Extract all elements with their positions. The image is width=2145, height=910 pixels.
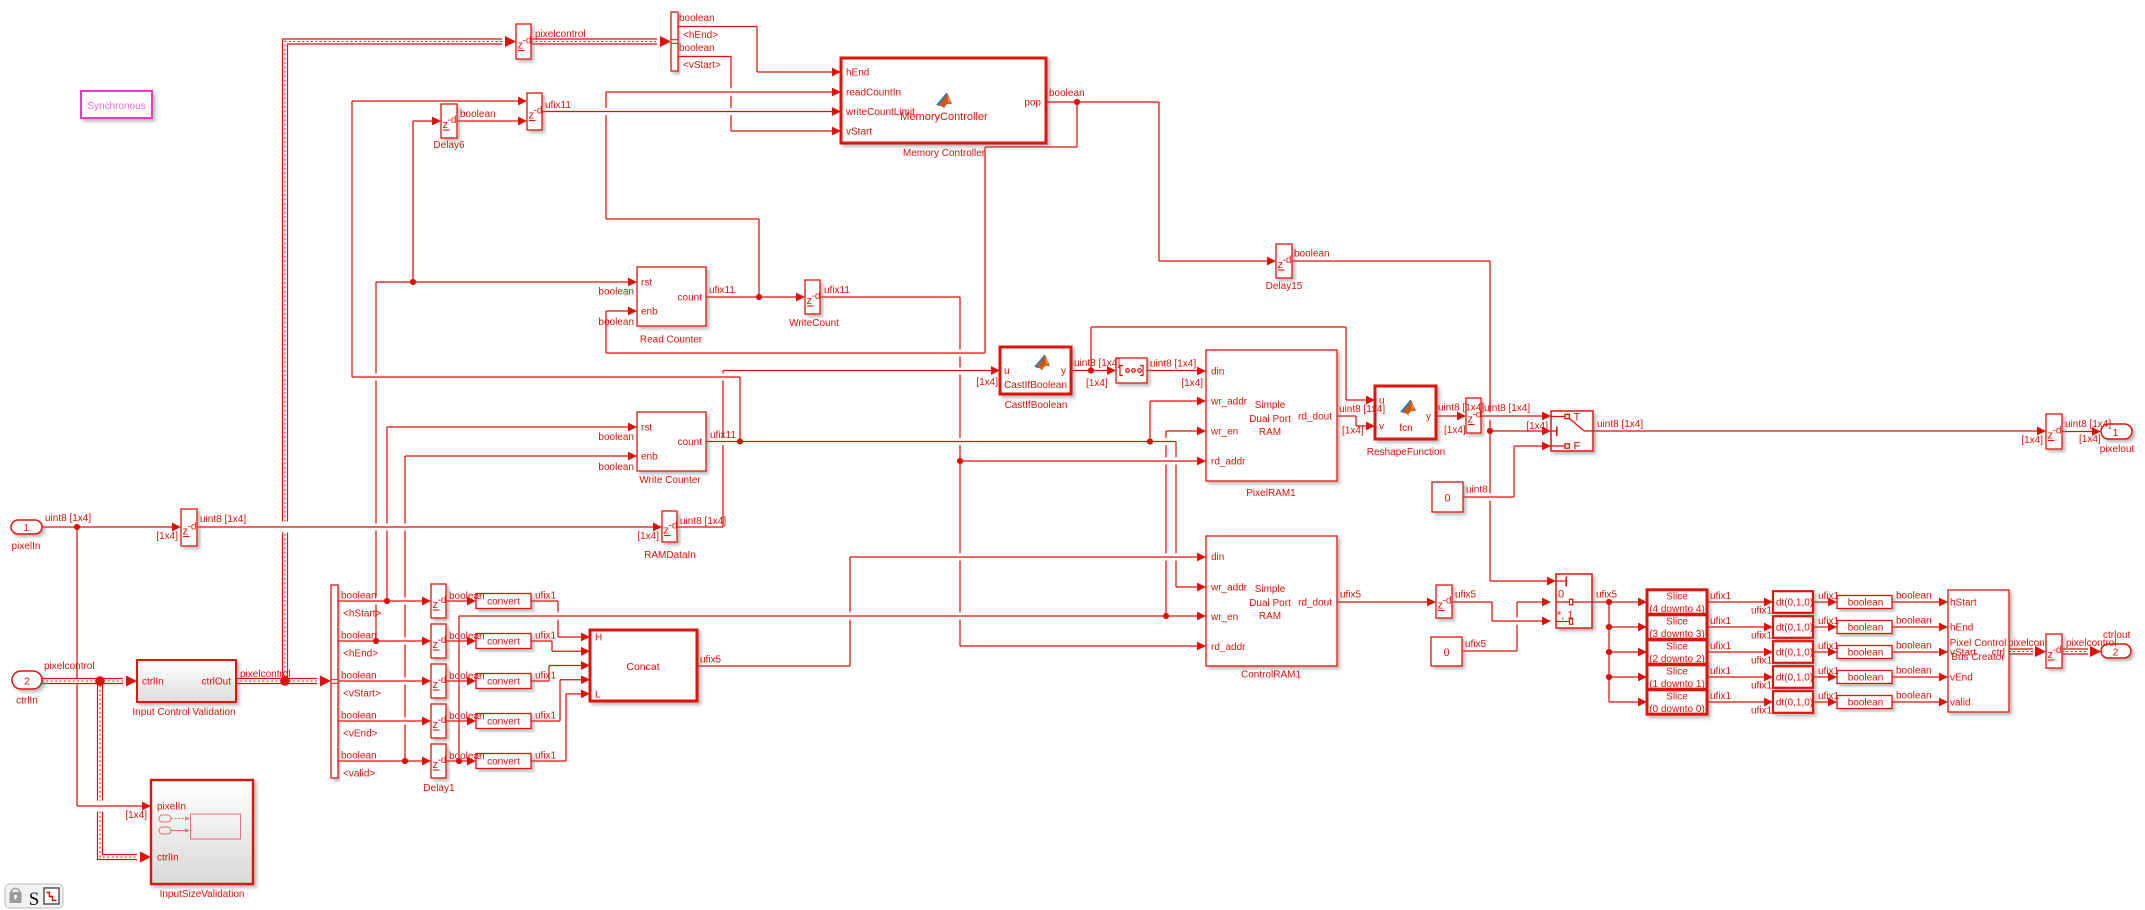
- boolean conversion block bit4: [1837, 596, 1892, 609]
- wire branch to Delay6: [413, 117, 441, 282]
- svg-text:0: 0: [1443, 647, 1449, 659]
- wire boolean to Bus Creator row4: [1892, 673, 1948, 682]
- svg-text:(3 downto 3): (3 downto 3): [1649, 629, 1705, 640]
- svg-text:boolean: boolean: [1896, 691, 1932, 702]
- svg-text:2: 2: [24, 676, 30, 688]
- wire boolean to Bus Creator row5: [1892, 698, 1948, 707]
- svg-text:[1x4]: [1x4]: [1444, 425, 1466, 436]
- wire branch to Slice bit2: [1609, 648, 1647, 657]
- junction dot at 1091,370.5: [1088, 367, 1094, 373]
- svg-text:PixelRAM1: PixelRAM1: [1246, 488, 1296, 499]
- wire branch to PixelRAM1 rd_addr: [960, 457, 1206, 466]
- wire dt to boolean cast row2: [1813, 623, 1837, 632]
- svg-text:Simple: Simple: [1255, 584, 1286, 595]
- svg-text:y: y: [1426, 412, 1431, 423]
- svg-text:ControlRAM1: ControlRAM1: [1241, 670, 1301, 681]
- svg-text:[1x4]: [1x4]: [156, 531, 178, 542]
- convert block (hStart path): [476, 594, 531, 609]
- wire branch to Slice bit3: [1609, 623, 1647, 632]
- svg-text:ctrlIn: ctrlIn: [16, 696, 38, 707]
- wire Read Counter count to WriteCount: [706, 293, 805, 302]
- wire pop feedback to Read Counter enb: [606, 102, 1077, 353]
- svg-text:boolean: boolean: [449, 671, 485, 682]
- svg-text:CastIfBoolean: CastIfBoolean: [1005, 400, 1068, 411]
- svg-text:H: H: [595, 633, 602, 644]
- svg-text:Slice: Slice: [1666, 642, 1688, 653]
- svg-text:Memory Controller: Memory Controller: [903, 148, 986, 159]
- wire delayed vStart to convert: [446, 677, 476, 686]
- svg-text:convert: convert: [487, 757, 520, 768]
- wire constant 0 to Switch F input: [1463, 442, 1551, 497]
- svg-text:*, 1: *, 1: [1557, 610, 1574, 622]
- wire hStart to Delay1: [338, 597, 431, 606]
- wire pixelIn to Delay: [42, 523, 181, 532]
- svg-text:y: y: [1061, 366, 1066, 377]
- svg-text:ufix11: ufix11: [545, 100, 571, 111]
- bus wire delayed pixelcontrol to Bus Selector1: [531, 36, 671, 47]
- svg-text:(0 downto 0): (0 downto 0): [1649, 704, 1705, 715]
- svg-text:-d: -d: [669, 521, 678, 532]
- svg-text:fcn: fcn: [1399, 423, 1412, 434]
- svg-text:ufix1: ufix1: [1818, 616, 1840, 627]
- svg-text:pixelcontrol: pixelcontrol: [240, 669, 291, 680]
- svg-text:1: 1: [24, 522, 30, 534]
- svg-text:pixelcontrol: pixelcontrol: [535, 29, 586, 40]
- svg-text:[1x4]: [1x4]: [2079, 434, 2101, 445]
- wire delayed control to index switch data: [1452, 602, 1551, 625]
- Simple Dual Port RAM PixelRAM1: [1206, 350, 1337, 481]
- MATLAB logo in CastIfBoolean: [1034, 355, 1050, 371]
- subsystem Input Control Validation: [137, 660, 236, 702]
- inport 1 pixelIn: [11, 520, 42, 534]
- svg-text:L: L: [595, 690, 601, 701]
- svg-text:dt(0,1,0): dt(0,1,0): [1776, 648, 1813, 659]
- bus junction dot at 285,681: [280, 676, 290, 686]
- svg-text:Input Control Validation: Input Control Validation: [132, 707, 235, 718]
- svg-text:Simple: Simple: [1255, 400, 1286, 411]
- wire convert4 to Concat: [531, 675, 590, 721]
- wire dt to boolean cast row1: [1813, 598, 1837, 607]
- svg-text:rst: rst: [641, 278, 652, 289]
- constant block 0 (uint8): [1432, 482, 1463, 512]
- svg-text:boolean: boolean: [679, 13, 715, 24]
- svg-text:Read Counter: Read Counter: [640, 335, 703, 346]
- Slice text underline row5: [1651, 712, 1703, 714]
- wire vStart signal to MemoryController: [678, 57, 841, 136]
- svg-text:Dual Port: Dual Port: [1249, 598, 1291, 609]
- wire Delay15 to index switch control: [1291, 261, 1556, 585]
- wire hEnd to Read Counter rst: [376, 278, 637, 641]
- delay block Delay1 (vEnd path): [431, 704, 446, 738]
- wire reshape to PixelRAM1 din: [1147, 367, 1206, 376]
- svg-text:-d: -d: [438, 595, 447, 606]
- svg-text:<hStart>: <hStart>: [343, 609, 382, 620]
- wire Slice bit0 to dt: [1707, 698, 1773, 707]
- svg-text:boolean: boolean: [1896, 616, 1932, 627]
- bus selector BusSelector2 (hStart hEnd vStart vEnd valid): [331, 585, 338, 778]
- wire to outport pixelout: [2062, 427, 2101, 436]
- svg-text:[1x4]: [1x4]: [1181, 378, 1203, 389]
- svg-text:-d: -d: [812, 291, 821, 302]
- bus junction dot at 100,681: [95, 676, 105, 686]
- svg-text:ufix1: ufix1: [1710, 616, 1732, 627]
- svg-text:Bus Creator: Bus Creator: [1951, 652, 2005, 663]
- svg-text:-d: -d: [438, 715, 447, 726]
- wire valid to Write Counter enb: [405, 452, 637, 761]
- svg-text:uint8 [1x4]: uint8 [1x4]: [1150, 359, 1196, 370]
- dt(0,1,0) block bit4: [1773, 591, 1813, 613]
- svg-text:ufix1: ufix1: [1710, 641, 1732, 652]
- junction dot at 1609,627: [1606, 624, 1612, 630]
- svg-text:boolean: boolean: [1294, 249, 1330, 260]
- junction dot at 1609,652: [1606, 649, 1612, 655]
- bus wire ctrlIn branch to InputSizeValidation: [100, 681, 151, 863]
- svg-text:ufix5: ufix5: [1455, 590, 1477, 601]
- delay block z^-d (pixelcontrol path): [516, 24, 531, 59]
- outport 1 pixelout: [2101, 424, 2132, 439]
- svg-text:dt(0,1,0): dt(0,1,0): [1776, 598, 1813, 609]
- svg-text:enb: enb: [641, 307, 658, 318]
- svg-text:<vEnd>: <vEnd>: [343, 729, 378, 740]
- svg-text:dt(0,1,0): dt(0,1,0): [1776, 698, 1813, 709]
- svg-text:wr_addr: wr_addr: [1210, 397, 1248, 408]
- junction dot at 1077,102: [1074, 99, 1080, 105]
- svg-text:ufix1: ufix1: [1751, 706, 1773, 717]
- svg-text:boolean: boolean: [460, 109, 496, 120]
- svg-text:ufix1: ufix1: [1751, 606, 1773, 617]
- svg-text:[1x4]: [1x4]: [637, 531, 659, 542]
- delay block WriteCount: [805, 280, 820, 314]
- junction dot at 1609,677: [1606, 674, 1612, 680]
- delay block z^-d (control read data): [1436, 585, 1452, 618]
- switch block T/F: [1551, 411, 1593, 451]
- junction dot at 405,761: [402, 758, 408, 764]
- Bus Creator Pixel Control: [1948, 590, 2009, 712]
- wire Slice bit4 to dt: [1707, 598, 1773, 607]
- MATLAB Function block Memory Controller: [841, 58, 1046, 143]
- svg-text:boolean: boolean: [598, 287, 634, 298]
- svg-text:InputSizeValidation: InputSizeValidation: [160, 889, 245, 900]
- svg-text:convert: convert: [487, 597, 520, 608]
- wire Slice bit3 to dt: [1707, 623, 1773, 632]
- delay block z^-d (reshaped pixel): [1466, 398, 1481, 433]
- MATLAB Function block CastIfBoolean: [1000, 347, 1071, 394]
- svg-text:ufix1: ufix1: [1710, 591, 1732, 602]
- svg-text:boolean: boolean: [679, 43, 715, 54]
- svg-text:ufix1: ufix1: [535, 631, 557, 642]
- wire vEnd to Delay1: [338, 717, 431, 726]
- svg-text:ufix5: ufix5: [1596, 590, 1618, 601]
- delay block WriteCountLimit (with enable input): [527, 93, 542, 130]
- svg-text:RAMDataIn: RAMDataIn: [644, 550, 696, 561]
- wire convert2 to Concat: [531, 641, 590, 656]
- svg-text:pixelIn: pixelIn: [12, 541, 41, 552]
- wire PixelRAM1 rd_dout to ReshapeFunction v: [1337, 416, 1375, 430]
- svg-text:ctrlIn: ctrlIn: [142, 677, 164, 688]
- svg-text:ufix5: ufix5: [700, 655, 722, 666]
- svg-text:1: 1: [2113, 427, 2119, 439]
- dt(0,1,0) block bit3: [1773, 616, 1813, 638]
- svg-text:-d: -d: [438, 675, 447, 686]
- Slice block (0 downto 0): [1647, 690, 1707, 714]
- wire Slice bit2 to dt: [1707, 648, 1773, 657]
- convert block (vStart path): [476, 674, 531, 689]
- delay block Delay1 (hEnd path): [431, 624, 446, 658]
- wire writeCountLimit to MemoryController: [542, 107, 841, 116]
- svg-text:readCountIn: readCountIn: [846, 88, 901, 99]
- svg-text:-d: -d: [438, 635, 447, 646]
- svg-text:S: S: [29, 889, 40, 910]
- svg-text:ctrlOut: ctrlOut: [202, 677, 232, 688]
- svg-text:ufix1: ufix1: [1818, 691, 1840, 702]
- svg-text:boolean: boolean: [1848, 698, 1884, 709]
- wire delayed valid to convert: [446, 757, 476, 766]
- svg-text:[1x4]: [1x4]: [976, 377, 998, 388]
- svg-text:pixelcontrol: pixelcontrol: [44, 661, 95, 672]
- svg-text:din: din: [1211, 552, 1224, 563]
- wire WriteCount to ControlRAM1 rd_addr: [820, 297, 1206, 650]
- Slice text underline row4: [1651, 687, 1703, 689]
- svg-text:boolean: boolean: [341, 671, 377, 682]
- wire boolean to Bus Creator row2: [1892, 623, 1948, 632]
- wire boolean to Bus Creator row3: [1892, 648, 1948, 657]
- convert block (hEnd path): [476, 634, 531, 649]
- svg-text:(2 downto 2): (2 downto 2): [1649, 654, 1705, 665]
- svg-text:wr_en: wr_en: [1210, 612, 1238, 623]
- wire delayed vEnd to convert: [446, 717, 476, 726]
- wire convert3 to Concat: [531, 661, 590, 681]
- svg-text:ufix11: ufix11: [710, 430, 736, 441]
- svg-text:uint8 [1x4]: uint8 [1x4]: [1339, 404, 1385, 415]
- svg-text:boolean: boolean: [1049, 88, 1085, 99]
- svg-text:ufix1: ufix1: [535, 591, 557, 602]
- junction dot at 387,601: [384, 598, 390, 604]
- wire dt to boolean cast row3: [1813, 648, 1837, 657]
- svg-text:[1x4]: [1x4]: [1086, 378, 1108, 389]
- dt(0,1,0) block bit2: [1773, 641, 1813, 663]
- viewer badge (lock, S, signal icon): [5, 884, 63, 910]
- svg-text:F: F: [1574, 441, 1581, 453]
- svg-text:ufix1: ufix1: [1751, 681, 1773, 692]
- svg-text:ufix1: ufix1: [1818, 666, 1840, 677]
- wire CastIfBoolean y to reshape: [1071, 366, 1116, 375]
- svg-text:u: u: [1004, 366, 1010, 377]
- junction dot at 1150,441.5: [1147, 438, 1153, 444]
- Concat block: [590, 630, 697, 701]
- boolean conversion block bit0: [1837, 696, 1892, 709]
- svg-text:MemoryController: MemoryController: [900, 111, 988, 123]
- reshape block [o o o]: [1116, 358, 1147, 383]
- svg-text:ufix11: ufix11: [824, 285, 850, 296]
- svg-text:din: din: [1211, 367, 1224, 378]
- delay block Delay1 (vStart path): [431, 664, 446, 698]
- junction dot at 459,761: [456, 758, 462, 764]
- svg-text:dt(0,1,0): dt(0,1,0): [1776, 673, 1813, 684]
- inport 2 ctrlIn: [12, 671, 42, 689]
- wire branch to Switch control input: [1490, 427, 1551, 436]
- svg-text:Pixel Control: Pixel Control: [1950, 638, 2007, 649]
- svg-text:boolean: boolean: [1896, 666, 1932, 677]
- svg-text:boolean: boolean: [449, 631, 485, 642]
- svg-text:Synchronous: Synchronous: [87, 101, 145, 112]
- Slice text underline row1: [1651, 612, 1703, 614]
- constant block 0 (ufix5): [1431, 637, 1462, 666]
- svg-text:boolean: boolean: [449, 591, 485, 602]
- wire pop to Delay15: [1046, 102, 1276, 265]
- svg-text:<hEnd>: <hEnd>: [683, 30, 718, 41]
- svg-text:ufix5: ufix5: [1340, 590, 1362, 601]
- svg-text:0: 0: [1444, 493, 1450, 505]
- svg-text:-d: -d: [448, 115, 457, 126]
- bus wire pixelcontrol to Bus Selector: [236, 676, 331, 687]
- svg-text:boolean: boolean: [598, 462, 634, 473]
- svg-text:convert: convert: [487, 637, 520, 648]
- svg-text:wr_addr: wr_addr: [1210, 583, 1248, 594]
- svg-text:pop: pop: [1024, 98, 1041, 109]
- svg-text:uint8 [1x4]: uint8 [1x4]: [680, 516, 726, 527]
- Slice block (2 downto 2): [1647, 640, 1707, 664]
- svg-text:Concat: Concat: [626, 661, 659, 673]
- svg-text:boolean: boolean: [1848, 623, 1884, 634]
- svg-text:-d: -d: [2053, 426, 2062, 437]
- outport 2 ctrlout: [2101, 644, 2131, 658]
- wire convert5 to Concat L: [531, 690, 590, 762]
- InputSizeValidation inner icon (two inports and subsystem): [159, 814, 241, 839]
- svg-text:uint8 [1x4]: uint8 [1x4]: [200, 514, 246, 525]
- svg-text:-d: -d: [438, 755, 447, 766]
- svg-text:0: 0: [1558, 589, 1564, 601]
- svg-text:convert: convert: [487, 677, 520, 688]
- svg-text:ufix1: ufix1: [1751, 631, 1773, 642]
- wire Concat to ControlRAM1 din: [697, 553, 1206, 666]
- dt(0,1,0) block bit1: [1773, 666, 1813, 688]
- svg-text:count: count: [678, 293, 703, 304]
- svg-text:count: count: [678, 437, 703, 448]
- svg-text:ufix1: ufix1: [1818, 591, 1840, 602]
- Slice text underline row3: [1651, 662, 1703, 664]
- convert block (valid path): [476, 754, 531, 769]
- svg-text:-d: -d: [2053, 645, 2062, 656]
- svg-text:<hEnd>: <hEnd>: [343, 649, 378, 660]
- junction dot at 1166,616: [1163, 613, 1169, 619]
- svg-text:ReshapeFunction: ReshapeFunction: [1367, 447, 1445, 458]
- subsystem InputSizeValidation: [151, 780, 253, 884]
- delay block z^-d (pixelIn path): [181, 509, 197, 546]
- svg-text:-d: -d: [523, 36, 532, 47]
- MATLAB Function block ReshapeFunction (fcn): [1375, 386, 1436, 439]
- wire convert1 to Concat H: [531, 601, 590, 641]
- wire valid to Delay1: [338, 757, 431, 766]
- svg-text:2: 2: [2113, 647, 2119, 659]
- Slice block (3 downto 3): [1647, 615, 1707, 639]
- svg-text:Dual Port: Dual Port: [1249, 414, 1291, 425]
- boolean conversion block bit2: [1837, 646, 1892, 659]
- svg-text:CastIfBoolean: CastIfBoolean: [1004, 380, 1067, 391]
- svg-text:boolean: boolean: [1848, 598, 1884, 609]
- delay block Delay15: [1276, 244, 1292, 278]
- svg-text:Slice: Slice: [1666, 667, 1688, 678]
- wire branch to ReshapeFunction u: [1091, 327, 1375, 404]
- bus selector BusSelector1 (hEnd, vStart): [671, 12, 678, 71]
- wire dt to boolean cast row4: [1813, 673, 1837, 682]
- wire branch to Slice bit0: [1609, 602, 1647, 706]
- svg-text:Slice: Slice: [1666, 692, 1688, 703]
- Slice text underline row2: [1651, 637, 1703, 639]
- delay block RAMDataIn: [662, 511, 677, 542]
- svg-text:pixelout: pixelout: [2100, 444, 2135, 455]
- svg-text:boolean: boolean: [341, 631, 377, 642]
- wire branch to PixelRAM1 wr_addr: [1150, 397, 1206, 442]
- boolean conversion block bit1: [1837, 671, 1892, 684]
- svg-text:uint8 [1x4]: uint8 [1x4]: [1074, 358, 1120, 369]
- wire pixelIn branch to InputSizeValidation: [77, 527, 151, 810]
- svg-text:T: T: [1574, 412, 1581, 424]
- svg-text:boolean: boolean: [1848, 648, 1884, 659]
- svg-text:boolean: boolean: [341, 751, 377, 762]
- boolean conversion block bit3: [1837, 621, 1892, 634]
- Simple Dual Port RAM ControlRAM1: [1206, 536, 1337, 666]
- svg-text:ufix5: ufix5: [1465, 639, 1487, 650]
- wire hEnd signal to MemoryController: [678, 27, 841, 77]
- svg-text:enb: enb: [641, 452, 658, 463]
- wire count branch to WriteCountLimit delay: [352, 97, 740, 442]
- wire delayed data to Switch T input: [1481, 412, 1551, 421]
- svg-text:rd_addr: rd_addr: [1211, 642, 1246, 653]
- svg-text:-d: -d: [1443, 596, 1452, 607]
- svg-text:[1x4]: [1x4]: [125, 810, 147, 821]
- svg-text:Delay1: Delay1: [423, 783, 455, 794]
- junction dot at 740,441.5: [737, 438, 743, 444]
- svg-text:-d: -d: [188, 522, 197, 533]
- wire index switch to Slice bit4: [1592, 598, 1647, 607]
- svg-text:[1x4]: [1x4]: [1526, 421, 1548, 432]
- svg-text:hEnd: hEnd: [846, 68, 869, 79]
- junction dot at 77,527: [74, 524, 80, 530]
- delay block Delay1 (hStart path): [431, 584, 446, 618]
- wire RAMDataIn to CastIfBoolean u: [677, 366, 1000, 527]
- bus wire Bus Creator to Delay: [2009, 646, 2046, 657]
- svg-text:ufix1: ufix1: [535, 751, 557, 762]
- svg-text:boolean: boolean: [341, 711, 377, 722]
- index vector switch block: [1556, 574, 1592, 628]
- svg-text:ufix1: ufix1: [1710, 691, 1732, 702]
- wire Slice bit1 to dt: [1707, 673, 1773, 682]
- svg-text:[1x4]: [1x4]: [1342, 426, 1364, 437]
- wire Delay6 to enabled delay: [457, 117, 527, 126]
- wire Switch output to output Delay: [1593, 427, 2046, 436]
- svg-text:convert: convert: [487, 717, 520, 728]
- wire ReshapeFunction y to Delay: [1436, 412, 1466, 421]
- counter subsystem Write Counter: [637, 412, 706, 471]
- wire boolean to Bus Creator row1: [1892, 598, 1948, 607]
- junction dot at 1490,431: [1487, 428, 1493, 434]
- svg-text:vStart: vStart: [846, 127, 872, 138]
- svg-text:boolean: boolean: [1896, 641, 1932, 652]
- svg-text:valid: valid: [1950, 698, 1971, 709]
- wire hEnd to Delay1: [338, 637, 431, 646]
- junction dot at 1609,602: [1606, 599, 1612, 605]
- wire delayed pixelIn to RAMDataIn: [197, 523, 662, 532]
- svg-text:uint8: uint8: [1466, 485, 1488, 496]
- junction dot at 413,282: [410, 279, 416, 285]
- svg-text:-d: -d: [1283, 255, 1292, 266]
- svg-text:boolean: boolean: [1896, 591, 1932, 602]
- svg-text:dt(0,1,0): dt(0,1,0): [1776, 623, 1813, 634]
- Slice block (1 downto 1): [1647, 665, 1707, 689]
- svg-text:[1x4]: [1x4]: [2021, 435, 2043, 446]
- svg-text:vEnd: vEnd: [1950, 673, 1973, 684]
- svg-text:uint8 [1x4]: uint8 [1x4]: [45, 513, 91, 524]
